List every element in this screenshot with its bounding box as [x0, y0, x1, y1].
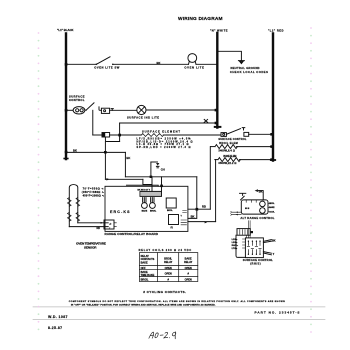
junction blobs on N bus [215, 109, 218, 124]
svg-text:BK: BK [73, 149, 77, 153]
alt range control box [241, 200, 268, 214]
wire drop into board x152 [151, 177, 153, 192]
svg-text:BK: BK [191, 215, 195, 219]
wire loop left of surface switch [236, 235, 245, 257]
switch blade to surface control contact [227, 129, 241, 135]
alt range control top switch [240, 193, 246, 200]
surface switch contacts [247, 241, 261, 255]
wire to L2 bus [249, 133, 272, 135]
wire vertical lamp return to element row [119, 123, 121, 142]
chassis ground CH riser [150, 162, 165, 178]
wire right loop down to RD junction [196, 177, 198, 209]
handwritten mark A0-2.9 [149, 332, 177, 339]
svg-text:W.D. 1087: W.D. 1087 [48, 315, 68, 319]
svg-text:L2/S+: L2/S+ [232, 242, 239, 244]
wire surface control row mid [110, 109, 137, 111]
svg-text:SENSOR: SENSOR [84, 246, 97, 250]
wire surface control row left [66, 109, 73, 111]
wire drop BK from stub [125, 152, 130, 176]
hook corner [99, 107, 101, 110]
connector element right [221, 133, 226, 137]
resistor bake element [215, 158, 272, 162]
wire oven lite row mid [113, 63, 189, 65]
svg-text:WIRING DIAGRAM: WIRING DIAGRAM [178, 16, 223, 22]
sensor wire to board upper [78, 222, 104, 224]
pin tick T [111, 109, 113, 111]
wire element row right [163, 134, 221, 136]
svg-text:BROL: BROL [269, 203, 275, 205]
surface switch left wire text [232, 239, 239, 250]
wire across above board lower [105, 178, 142, 180]
wire element row left [93, 134, 102, 136]
svg-text:BK: BK [259, 190, 263, 193]
wire RD pin [188, 204, 210, 210]
svg-text:"N" WHITE: "N" WHITE [210, 29, 228, 33]
surface switch box [245, 238, 263, 258]
sensor wire to board lower [69, 226, 104, 228]
relay table text [141, 255, 193, 282]
svg-text:RD: RD [97, 227, 101, 230]
svg-text:OVEN LITE: OVEN LITE [184, 65, 204, 69]
alt range control arrow BK [255, 189, 264, 200]
wire oven lite row right [196, 63, 216, 65]
wire element row [110, 134, 142, 136]
wire short above box edge [127, 185, 159, 186]
svg-text:OVEN LITE SW: OVEN LITE SW [94, 65, 119, 69]
svg-text:L1/S+: L1/S+ [232, 239, 239, 241]
sensor resistance values [82, 188, 105, 198]
footer rule lower [33, 319, 325, 321]
svg-text:BROIL: BROIL [141, 279, 149, 282]
surface switch left stubs [242, 239, 245, 248]
bus L1 bottom foot [64, 158, 68, 160]
svg-text:BAKE: BAKE [142, 209, 148, 212]
wire across above board upper [125, 176, 196, 178]
lamp SURFACE IND LITE [127, 105, 159, 119]
svg-text:IN "OFF" OR "RELAXED" POSITION: IN "OFF" OR "RELAXED" POSITION. FOR CORR… [71, 304, 216, 307]
svg-text:CONTROL: CONTROL [69, 98, 85, 102]
svg-text:OPEN: OPEN [165, 267, 172, 270]
svg-text:(RH/S): (RH/S) [250, 262, 261, 266]
footer rule upper [33, 306, 325, 308]
resistor surface element [141, 134, 163, 137]
svg-text:OPEN: OPEN [185, 267, 192, 270]
bus L1 [65, 34, 67, 160]
connector strip zigzag [140, 191, 162, 196]
svg-text:SP-RD,LRD = 2400W 27.3 Ω: SP-RD,LRD = 2400W 27.3 Ω [137, 146, 191, 149]
svg-text:BK: BK [126, 156, 130, 160]
svg-text:OPEN: OPEN [165, 272, 172, 275]
wire BK pin loop [188, 209, 197, 218]
svg-text:(1): (1) [171, 227, 174, 229]
wire oven lite row left [66, 63, 96, 65]
wire broil element drop [209, 147, 211, 210]
lamp OVEN LITE [184, 54, 204, 70]
svg-text:COOL: COOL [269, 211, 275, 213]
sensor resistor right lower [76, 212, 80, 221]
relay table grid [139, 253, 197, 282]
ground symbol neutral [238, 61, 244, 64]
svg-text:ALT RANGE CONTROL: ALT RANGE CONTROL [240, 216, 274, 220]
switch surface control [85, 103, 94, 111]
svg-text:SURFACE CONTROL: SURFACE CONTROL [218, 138, 246, 141]
wire L1 bottom stub BK [66, 149, 125, 153]
svg-text:RH/S+: RH/S+ [232, 245, 239, 247]
svg-text:TIME BAKE: TIME BAKE [141, 274, 155, 277]
board ERC-KS outline [105, 186, 188, 231]
sensor resistor right upper [76, 198, 80, 207]
oven temperature sensor loop [69, 185, 78, 227]
junction blob element row crossing [118, 134, 121, 137]
sensor resistor left upper [68, 198, 72, 207]
resistor broil element [211, 145, 272, 149]
wire drop to element row [92, 110, 94, 135]
wire bottom pin with arrow [188, 221, 216, 223]
wire corner into board [143, 179, 152, 186]
svg-text:NEUTRAL GROUND: NEUTRAL GROUND [231, 66, 260, 70]
svg-text:BROL: BROL [167, 210, 173, 212]
wire drop x105.4 [104, 152, 106, 179]
svg-text:RELAY: RELAY [164, 261, 173, 264]
pin marks right edge [181, 220, 187, 225]
relay coil 1 [142, 198, 148, 213]
bus L2 bottom foot [271, 159, 275, 161]
junction blobs on L2 bus [270, 133, 273, 161]
alt range control left pins [232, 212, 241, 214]
wire surface control row right [146, 109, 216, 111]
alt range control circle 1 [260, 201, 266, 207]
connector P [101, 108, 109, 113]
junction blobs on L1 bus [65, 63, 68, 153]
svg-text:OPEN: OPEN [185, 279, 192, 282]
svg-text:RELAY COILS 230 Ω 24 VDC: RELAY COILS 230 Ω 24 VDC [139, 249, 192, 252]
element spec text block [137, 137, 193, 149]
alt range control right pins [268, 203, 269, 211]
bus N [216, 33, 218, 128]
pilot device circle [73, 107, 85, 114]
svg-text:BK: BK [157, 61, 161, 65]
svg-text:PART NO. 23345T-S: PART NO. 23345T-S [255, 310, 300, 314]
svg-text:3400W,8.4 Ω: 3400W,8.4 Ω [218, 149, 235, 152]
bus N bottom foot [215, 126, 221, 128]
svg-text:BK: BK [272, 240, 276, 243]
svg-text:CHECK LOCAL CODES: CHECK LOCAL CODES [230, 70, 268, 74]
surface switch pin BK [263, 240, 275, 243]
sensor resistor left lower [68, 212, 72, 221]
connector element left [102, 133, 110, 138]
svg-text:RD: RD [202, 204, 206, 208]
svg-text:BAKE: BAKE [141, 261, 148, 264]
relay contact box 2 [169, 215, 179, 229]
switch OVEN LITE SW [94, 57, 119, 70]
wire bake element drop [215, 160, 217, 222]
svg-text:OFF: OFF [141, 267, 146, 270]
svg-text:BAKE: BAKE [269, 206, 275, 209]
relay contact box 1 [166, 198, 176, 212]
svg-text:RANGE CONTROL/RELAY BOARD: RANGE CONTROL/RELAY BOARD [105, 232, 159, 236]
connector right row [244, 132, 249, 136]
svg-text:BROIL: BROIL [150, 210, 157, 212]
svg-text:SURFACE ELEMENT: SURFACE ELEMENT [142, 130, 180, 134]
svg-text:SURFACE IND LITE: SURFACE IND LITE [127, 116, 159, 120]
connector box mid [237, 229, 250, 236]
svg-text:SURFACE CONTROL: SURFACE CONTROL [243, 258, 273, 262]
alt range control circle 2 [260, 208, 266, 214]
wire neutral ground branch [218, 51, 241, 60]
wire drop into board x161.5 [161, 177, 163, 192]
relay coil 2 [150, 198, 158, 213]
svg-text:ERC-KS: ERC-KS [110, 210, 130, 214]
alt range control right pin labels [269, 203, 275, 213]
svg-text:RELAY: RELAY [184, 261, 193, 264]
svg-text:CH: CH [161, 168, 165, 172]
svg-text:LT/S+: LT/S+ [232, 248, 239, 250]
svg-text:COMPONENT SYMBOLS DO NOT REFLE: COMPONENT SYMBOLS DO NOT REFLECT TRUE CO… [69, 300, 285, 303]
wires connector to surface switch [247, 221, 251, 238]
sensor pin connector [101, 220, 117, 229]
bus L2 [272, 34, 274, 161]
svg-text:3500W,22.2 Ω: 3500W,22.2 Ω [218, 162, 236, 165]
svg-text:450°F=2080Ω ∿: 450°F=2080Ω ∿ [83, 194, 105, 197]
svg-text:"L1" BLACK: "L1" BLACK [57, 28, 74, 32]
svg-text:# CYCLING CONTACTS.: # CYCLING CONTACTS. [143, 290, 186, 294]
svg-text:8-25-87: 8-25-87 [48, 326, 62, 330]
wire lamp return to N bus with splice X [120, 119, 217, 123]
surface switch pin Y [263, 252, 274, 256]
svg-text:"L2" RED: "L2" RED [268, 29, 284, 33]
wire U-under from element connector [105, 137, 119, 142]
